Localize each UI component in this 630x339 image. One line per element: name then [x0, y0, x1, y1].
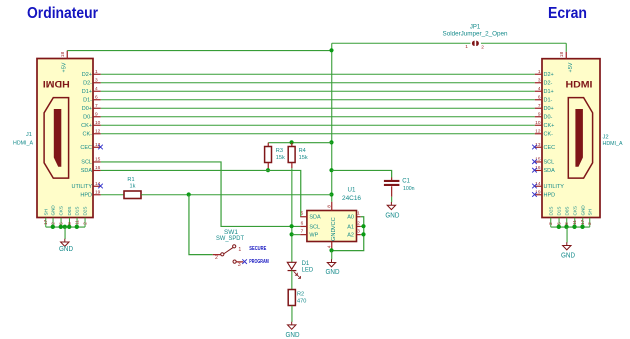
J2 pin 18 +5V	[565, 52, 567, 59]
svg-text:D1S: D1S	[75, 207, 80, 216]
ground symbol under U1	[327, 259, 335, 267]
svg-text:A1: A1	[347, 224, 354, 230]
svg-text:HPD: HPD	[544, 193, 556, 199]
led D1	[287, 262, 296, 269]
J1 pin 7 D0+	[93, 107, 101, 109]
svg-text:470: 470	[297, 299, 306, 305]
J2 pin 9 D0-	[535, 116, 543, 118]
J2 pin 1 D2+	[535, 73, 543, 75]
svg-text:D1: D1	[302, 261, 310, 267]
J1 no-connect X on UTILITY	[98, 184, 103, 189]
wire R1 to +5V trunk	[141, 194, 332, 196]
svg-text:4: 4	[326, 245, 332, 248]
svg-text:CEC: CEC	[544, 145, 556, 151]
connector J1 HDMI_A body	[37, 59, 93, 218]
junction R3 to SDA	[266, 168, 270, 172]
wire switch feed	[189, 195, 213, 255]
svg-text:R1: R1	[127, 177, 134, 183]
U1 pin 8 VCC	[331, 202, 333, 211]
svg-text:SH: SH	[587, 209, 592, 215]
J1 pin 15 SCL	[93, 161, 101, 163]
svg-text:D2+: D2+	[544, 72, 554, 78]
wire HPD from J1 to R1	[101, 194, 125, 196]
J1 bottom pin D1S	[76, 218, 78, 227]
svg-text:A2: A2	[347, 233, 354, 239]
junction on J2 ground bus	[572, 225, 576, 229]
svg-text:7: 7	[95, 103, 98, 109]
J2 pin 19 HPD	[535, 194, 543, 196]
junction SCL at R4	[290, 224, 294, 228]
svg-text:6: 6	[95, 95, 98, 101]
svg-text:15: 15	[95, 157, 101, 163]
svg-text:11: 11	[75, 220, 80, 225]
svg-text:SCL: SCL	[544, 160, 555, 166]
resistor R1	[124, 191, 141, 199]
svg-text:PROGRAM: PROGRAM	[249, 259, 269, 265]
svg-text:D0-: D0-	[83, 115, 92, 121]
svg-text:3: 3	[538, 78, 541, 84]
J2 pin 10 CK+	[535, 124, 543, 126]
svg-text:15k: 15k	[276, 155, 285, 161]
J1 shield ground bus wire	[46, 226, 85, 228]
junction +5V at J1 rail	[329, 48, 333, 52]
U1 pin 5 SDA	[300, 216, 307, 218]
svg-text:Ordinateur: Ordinateur	[27, 5, 98, 22]
J2 pin 7 D0+	[535, 107, 543, 109]
svg-text:R4: R4	[299, 148, 306, 154]
junction on J2 ground bus	[564, 225, 568, 229]
junction +5V at HPD pullup row	[329, 192, 333, 196]
J1 no-connect X on CEC	[98, 145, 103, 150]
ground symbol under C1	[387, 202, 395, 210]
J2 bottom pin D0S	[566, 218, 568, 227]
svg-text:19: 19	[95, 190, 101, 196]
svg-text:1: 1	[95, 69, 98, 75]
J2 bottom pin GND	[582, 218, 584, 227]
svg-text:6: 6	[301, 220, 304, 226]
junction +5V at C1 tap	[329, 168, 333, 172]
svg-text:R2: R2	[297, 292, 304, 298]
svg-text:CK+: CK+	[81, 123, 92, 129]
SW1 no-connect X on pin 3	[242, 259, 247, 264]
svg-text:9: 9	[95, 112, 98, 118]
J2 pin 14 UTILITY	[535, 185, 543, 187]
svg-text:8: 8	[326, 205, 332, 208]
svg-text:4: 4	[95, 86, 98, 92]
svg-text:2: 2	[481, 44, 484, 50]
svg-text:1: 1	[538, 69, 541, 75]
J2 pin 13 CEC	[535, 146, 543, 148]
connector J2 HDMI_A body	[542, 59, 600, 218]
svg-text:D0+: D0+	[82, 106, 92, 112]
J1 pin 6 D1-	[93, 99, 101, 101]
svg-text:D2+: D2+	[82, 72, 92, 78]
svg-text:C1: C1	[402, 178, 410, 184]
J1 bottom pin D2S	[84, 218, 86, 227]
svg-text:1k: 1k	[130, 183, 136, 189]
J1 bottom pin SH	[45, 218, 47, 227]
J2 bottom pin CKS	[574, 218, 576, 227]
svg-text:D1-: D1-	[544, 98, 553, 104]
J1 pin 19 HPD	[93, 194, 101, 196]
junction A2	[361, 232, 365, 236]
resistor R3	[267, 143, 269, 147]
J1 pin 13 CEC	[93, 146, 101, 148]
wire CK- net	[101, 133, 535, 135]
svg-text:D2-: D2-	[83, 81, 92, 87]
svg-text:Ecran: Ecran	[548, 5, 587, 22]
svg-text:J1: J1	[26, 132, 32, 138]
svg-text:18: 18	[559, 52, 565, 58]
svg-text:16: 16	[95, 165, 101, 171]
svg-text:3: 3	[95, 78, 98, 84]
J1 pin 16 SDA	[93, 169, 101, 171]
svg-text:GND: GND	[561, 253, 575, 260]
svg-text:100n: 100n	[403, 186, 415, 192]
svg-text:18: 18	[60, 52, 66, 58]
J2 receptacle tongue	[575, 109, 583, 167]
svg-text:D2-: D2-	[544, 81, 553, 87]
svg-text:UTILITY: UTILITY	[72, 184, 93, 190]
junction +5V at pullup rail	[329, 140, 333, 144]
junction on J1 ground bus	[75, 225, 79, 229]
resistor R2	[288, 290, 295, 306]
junction on J2 ground bus	[557, 225, 561, 229]
svg-text:D2S: D2S	[83, 207, 88, 216]
junction on J2 ground bus	[580, 225, 584, 229]
wire U1 GND down	[331, 251, 333, 260]
svg-text:SH: SH	[43, 209, 48, 215]
svg-text:D1-: D1-	[83, 98, 92, 104]
svg-text:UTILITY: UTILITY	[544, 184, 565, 190]
wire D1- net	[101, 99, 535, 101]
J2 no-connect X on HPD	[532, 192, 537, 197]
wire LED to R2	[291, 271, 293, 290]
svg-text:1: 1	[357, 211, 360, 217]
J2 bottom pin D2S	[550, 218, 552, 227]
svg-text:CKS: CKS	[572, 206, 577, 215]
solder jumper JP1	[472, 41, 475, 46]
svg-text:D2S: D2S	[548, 207, 553, 216]
junction HPD branch to switch	[187, 192, 191, 196]
wire D0+ net	[101, 107, 535, 109]
svg-text:GND: GND	[326, 269, 340, 276]
wire R4 down to SCL node	[291, 168, 293, 262]
junction on J1 ground bus	[63, 225, 67, 229]
wire SCL from J1	[101, 162, 301, 227]
J1 pin 9 D0-	[93, 116, 101, 118]
svg-text:7: 7	[301, 229, 304, 235]
svg-text:CK+: CK+	[544, 123, 555, 129]
svg-text:11: 11	[572, 220, 577, 225]
svg-text:VCC: VCC	[331, 217, 337, 229]
J1 HDMI receptacle outline	[44, 98, 69, 179]
wire R2 to ground	[291, 306, 293, 322]
J1 pin 3 D2-	[93, 82, 101, 84]
svg-text:SCL: SCL	[81, 160, 92, 166]
svg-text:GND: GND	[286, 332, 300, 339]
ground symbol under J2	[563, 242, 571, 250]
U1 pin 4 GND	[331, 242, 333, 251]
svg-text:10: 10	[95, 120, 101, 126]
junction on J1 ground bus	[67, 225, 71, 229]
wire +5V from J1 pin 18	[67, 50, 332, 52]
svg-text:+5V: +5V	[568, 62, 574, 72]
J1 pin 4 D1+	[93, 90, 101, 92]
J1 receptacle tongue	[54, 109, 62, 167]
svg-text:15k: 15k	[299, 155, 308, 161]
J1 pin 10 CK+	[93, 124, 101, 126]
svg-text:12: 12	[95, 129, 101, 135]
svg-text:HDMI_A: HDMI_A	[13, 141, 33, 147]
J1 bottom pin GND	[52, 218, 54, 227]
switch SW1 SPDT	[213, 254, 221, 256]
junction R4 top	[290, 140, 294, 144]
J2 HDMI receptacle outline	[568, 98, 592, 179]
svg-text:HDMI: HDMI	[566, 79, 593, 89]
svg-text:D1S: D1S	[557, 207, 562, 216]
J2 pin 16 SDA	[535, 169, 543, 171]
resistor R4	[291, 143, 293, 147]
J2 no-connect X on CEC	[532, 145, 537, 150]
J2 pin 12 CK-	[535, 133, 543, 135]
J1 pin 18 +5V	[66, 51, 68, 59]
wire D2- net	[101, 82, 535, 84]
U1 pin 6 SCL	[300, 225, 307, 227]
wire D2+ net	[101, 73, 535, 75]
svg-text:GND: GND	[331, 228, 337, 241]
svg-text:GND: GND	[385, 213, 399, 220]
svg-text:2: 2	[215, 255, 218, 261]
svg-text:12: 12	[535, 129, 541, 135]
svg-text:SDA: SDA	[544, 168, 556, 174]
svg-text:6: 6	[538, 95, 541, 101]
svg-text:2: 2	[357, 220, 360, 226]
J2 pin 6 D1-	[535, 99, 543, 101]
wire D1+ net	[101, 90, 535, 92]
J2 no-connect X on SCL	[532, 159, 537, 164]
svg-text:SDA: SDA	[309, 215, 321, 221]
wire +5V tap to C1	[332, 170, 392, 177]
svg-text:CK-: CK-	[544, 132, 554, 138]
J1 pin 14 UTILITY	[93, 185, 101, 187]
svg-text:GND: GND	[51, 205, 56, 216]
wire solder jumper to J2 +5V	[481, 42, 566, 44]
junction on J1 ground bus	[51, 225, 55, 229]
svg-text:SECURE: SECURE	[249, 246, 266, 252]
svg-text:SCL: SCL	[309, 224, 320, 230]
wire +5V top run to solder jumper	[332, 42, 471, 44]
capacitor C1	[391, 177, 393, 180]
svg-text:D0S: D0S	[564, 207, 569, 216]
J2 no-connect X on SDA	[532, 168, 537, 173]
svg-text:GND: GND	[580, 205, 585, 216]
J1 pin 12 CK-	[93, 133, 101, 135]
U1 pin 3 A2	[357, 234, 361, 236]
J1 pin 1 D2+	[93, 73, 101, 75]
junction U1 GND node	[329, 248, 333, 252]
J2 pin 3 D2-	[535, 82, 543, 84]
svg-text:HDMI_A: HDMI_A	[603, 141, 623, 147]
svg-text:U1: U1	[348, 186, 356, 193]
U1 pin 1 A0	[357, 216, 361, 218]
wire J2 bus to ground	[566, 227, 568, 243]
J2 bottom pin D1S	[558, 218, 560, 227]
wire J1 bus to ground	[64, 227, 66, 239]
svg-text:10: 10	[535, 120, 541, 126]
wire SDA from J1	[101, 170, 301, 216]
svg-text:3: 3	[238, 262, 241, 268]
svg-text:SW_SPDT: SW_SPDT	[216, 236, 244, 242]
svg-text:CKS: CKS	[59, 206, 64, 215]
svg-text:HDMI: HDMI	[43, 79, 70, 89]
wire A0 A1 A2 tie	[332, 217, 364, 251]
svg-text:4: 4	[538, 86, 541, 92]
svg-text:+5V: +5V	[61, 62, 67, 72]
J2 shield ground bus wire	[551, 226, 590, 228]
svg-text:D0-: D0-	[544, 115, 553, 121]
J2 bottom pin SH	[589, 218, 591, 227]
J1 bottom pin D0S	[68, 218, 70, 227]
svg-text:CK-: CK-	[83, 132, 93, 138]
wire WP link	[292, 234, 300, 236]
svg-text:CEC: CEC	[80, 145, 92, 151]
svg-text:GND: GND	[59, 246, 73, 253]
svg-text:D1+: D1+	[544, 89, 554, 95]
svg-text:WP: WP	[309, 233, 318, 239]
svg-text:5: 5	[301, 211, 304, 217]
svg-text:SDA: SDA	[81, 168, 93, 174]
svg-text:D0S: D0S	[67, 207, 72, 216]
svg-text:24C16: 24C16	[342, 195, 362, 202]
svg-text:D0+: D0+	[544, 106, 554, 112]
wire C1 to ground	[391, 197, 393, 203]
junction A1	[361, 224, 365, 228]
J1 bottom pin CKS	[60, 218, 62, 227]
svg-text:17: 17	[43, 219, 48, 225]
wire D0- net	[101, 116, 535, 118]
svg-text:R3: R3	[276, 148, 283, 154]
svg-text:J2: J2	[603, 135, 609, 141]
svg-text:JP1: JP1	[470, 25, 481, 31]
ground symbol under R2	[288, 322, 296, 330]
J2 no-connect X on UTILITY	[532, 184, 537, 189]
svg-text:A0: A0	[347, 215, 354, 221]
ground symbol under J1	[61, 239, 69, 247]
wire pullup rail	[268, 142, 332, 144]
U1 pin 2 A1	[357, 225, 361, 227]
svg-text:1: 1	[238, 247, 241, 253]
svg-text:9: 9	[538, 112, 541, 118]
ic U1 24C16 body	[307, 211, 357, 242]
junction on J1 ground bus	[59, 225, 63, 229]
wire CK+ net	[101, 124, 535, 126]
svg-text:1: 1	[465, 44, 468, 50]
svg-text:LED: LED	[302, 267, 314, 273]
J2 pin 4 D1+	[535, 90, 543, 92]
svg-text:HPD: HPD	[80, 193, 92, 199]
svg-text:SolderJumper_2_Open: SolderJumper_2_Open	[443, 31, 508, 37]
svg-text:D1+: D1+	[82, 89, 92, 95]
svg-text:17: 17	[580, 219, 585, 225]
U1 pin 7 WP	[300, 234, 307, 236]
svg-text:7: 7	[538, 103, 541, 109]
junction WP at R4 branch	[290, 232, 294, 236]
wire +5V vertical trunk	[331, 43, 333, 202]
J2 pin 15 SCL	[535, 161, 543, 163]
svg-text:3: 3	[357, 229, 360, 235]
